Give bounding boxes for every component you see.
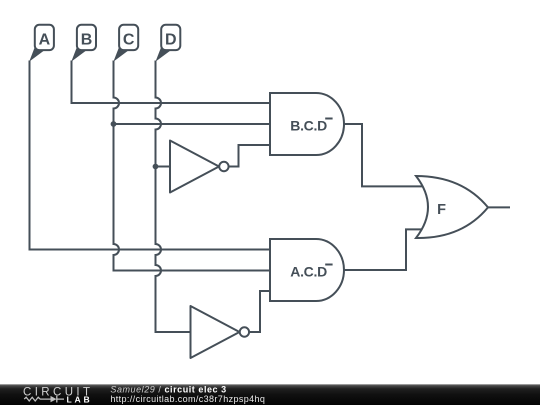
wire lower AND output to OR input 2 [344,229,424,270]
svg-text:B: B [81,31,93,48]
wire C vertical with hops [114,61,271,271]
inverter U2 (bottom NOT gate) [191,306,250,358]
svg-text:Samuel29 / circuit elec 3: Samuel29 / circuit elec 3 [110,384,226,394]
wire C horizontal to upper AND input 2 [114,123,271,125]
inverter U1 (top NOT gate) [170,141,229,193]
CircuitLab logo [23,387,93,405]
footer bar [0,384,540,405]
svg-text:F: F [437,202,446,218]
wire inverter U1 output to upper AND input 3 [229,145,270,167]
wire B vertical and horizontal to upper AND input 1 [72,61,271,104]
wire upper AND output to OR input 1 [344,124,424,186]
wire OR output stub [488,206,510,208]
svg-text:C: C [123,31,135,48]
svg-text:A: A [39,31,51,48]
input flag C [113,25,138,62]
input flag B [71,25,96,62]
svg-text:D: D [165,31,177,48]
AND gate A.C.D' (bottom) [270,239,344,301]
wire D to inverter U1 input [156,166,171,168]
svg-text:LAB: LAB [67,394,93,404]
junction dot node D [153,164,159,170]
junction dot node C [111,121,117,127]
footer credit text [110,384,265,404]
OR gate F [416,176,488,238]
input flag D [156,25,181,62]
wire inverter U2 output to lower AND input 3 [249,291,270,332]
input flag A [29,25,54,62]
AND gate B.C.D' (top) [270,93,344,155]
svg-text:http://circuitlab.com/c38r7hzp: http://circuitlab.com/c38r7hzpsp4hq [110,394,265,404]
wire D vertical with hops [156,61,191,333]
svg-text:A.C.D: A.C.D [290,263,327,279]
wire A vertical and horizontal to lower AND input 1 [30,61,271,250]
svg-text:B.C.D: B.C.D [290,117,327,133]
